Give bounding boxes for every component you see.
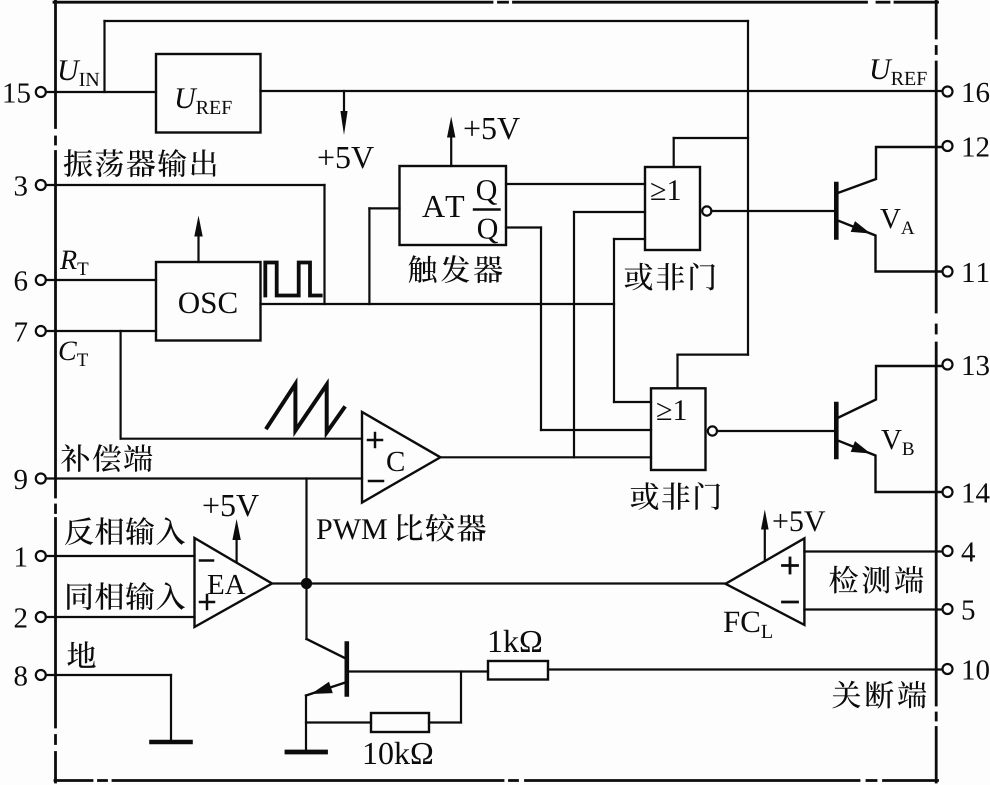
wire pin4 to FC_L + <box>804 550 942 552</box>
value label 1kOhm <box>490 631 501 652</box>
wire NOR1 supply connector <box>673 138 675 167</box>
+5V label <box>319 150 334 165</box>
net shutdown label <box>832 681 860 709</box>
+5V arrow above AT <box>450 135 452 167</box>
pin 4 <box>943 546 953 556</box>
wire osc riser to NOR gates x=614 <box>613 239 615 402</box>
+5V label above AT <box>465 121 480 136</box>
NOR1 caption <box>625 263 653 291</box>
wire OSC output to risers <box>261 303 615 305</box>
error amplifier EA <box>195 538 273 627</box>
pin 12 <box>943 141 953 151</box>
wire EA output bus to FC_L <box>272 582 726 584</box>
net oscillator-output label <box>64 149 93 177</box>
+5V tap arrow (from U_REF line) <box>343 91 345 114</box>
wire pin5 to FC_L - <box>804 608 942 610</box>
pin 15 <box>36 87 46 97</box>
net inverting-input label <box>65 517 93 545</box>
wire pin6 R_T to OSC <box>46 279 156 281</box>
flip-flop caption <box>409 255 437 283</box>
+5V label above FC_L <box>773 514 787 528</box>
+5V arrow above OSC <box>197 234 199 263</box>
transistor V_B <box>834 404 839 457</box>
+5V label above EA <box>204 498 219 513</box>
net compensation label <box>61 444 89 472</box>
wire NOR1 output to V_A base <box>711 210 835 212</box>
node U_IN label <box>60 60 81 80</box>
ground (feedback transistor) <box>287 750 326 755</box>
wire pin15 to U_REF input <box>46 91 156 93</box>
sawtooth symbol <box>267 384 344 433</box>
wire top supply bus <box>105 20 749 22</box>
pin 3 <box>36 180 46 190</box>
wire AT Q output to NOR1 <box>506 183 645 185</box>
transistor (feedback, unlabeled) <box>307 639 347 659</box>
value label 10kOhm <box>365 743 376 764</box>
pin 1 <box>36 551 46 561</box>
wire osc riser to AT input <box>368 208 370 304</box>
wire Qbar riser x=541 to NOR2 <box>540 228 542 431</box>
IC boundary (chain line) <box>54 1 492 4</box>
wire pin2 to EA noninverting input <box>46 616 195 618</box>
voltage reference U_REF <box>156 54 261 133</box>
node C_T label <box>60 341 77 360</box>
comparator FC_L <box>726 538 805 625</box>
net ground label <box>67 641 95 668</box>
ground (pin 8) <box>152 740 191 745</box>
pin 2 <box>36 612 46 622</box>
resistor 1kOhm <box>488 661 548 680</box>
wire feedback riser x=306 <box>305 479 307 640</box>
wire supply bus drop to NOR gates <box>747 21 749 355</box>
transistor V_A <box>834 184 839 238</box>
pin 7 <box>36 326 46 336</box>
wire U_IN riser to top bus <box>103 21 105 92</box>
wire emitter to ground <box>305 696 307 752</box>
pin 10 <box>943 664 953 674</box>
wire U_REF output to pin 16 <box>261 90 943 92</box>
PWM comparator caption <box>317 519 332 539</box>
NOR2 output bubble <box>708 426 717 435</box>
square wave symbol <box>265 263 320 296</box>
net noninverting-input label <box>67 583 92 610</box>
junction dot EA output <box>301 578 312 589</box>
wire AT Qbar output <box>506 226 541 228</box>
pin 6 <box>36 275 46 285</box>
pin 8 <box>36 670 46 680</box>
flip-flop AT <box>400 166 507 245</box>
pin 11 <box>943 267 953 277</box>
wire pin9 compensation to comparator - <box>46 477 362 479</box>
wire pin7 C_T to OSC <box>46 330 156 332</box>
wire NOR2 output to V_B base <box>717 430 835 432</box>
wire PWM riser to NOR1 input x=574 <box>573 212 575 457</box>
wire 1k to pin10 shutdown <box>548 668 942 670</box>
wire C_T branch to comparator + <box>119 331 121 439</box>
oscillator OSC <box>156 262 261 341</box>
pin 5 <box>943 604 953 614</box>
wire pin3 oscillator output <box>46 184 325 186</box>
wire comparator C output to NOR2 <box>440 456 651 458</box>
NOR gate 1 <box>645 167 700 250</box>
wire base to 10k riser x=461 <box>460 672 462 723</box>
pin 14 <box>943 487 953 497</box>
+5V arrow above FC_L <box>764 527 766 562</box>
resistor 10kOhm <box>371 713 429 732</box>
NOR2 caption <box>631 482 659 510</box>
node U_REF label (right) <box>872 59 893 79</box>
NOR1 output bubble <box>702 206 711 215</box>
net detect label <box>829 566 858 594</box>
wire osc output riser x=324.5 <box>323 185 325 304</box>
pin 16 <box>943 87 953 97</box>
wire NOR2 supply connector <box>678 354 749 356</box>
wire pin1 to EA inverting input <box>46 555 195 557</box>
node R_T label <box>60 251 77 269</box>
pin 13 <box>943 360 953 370</box>
+5V arrow above EA <box>236 537 238 562</box>
wire base node <box>347 670 488 672</box>
pin 9 <box>36 474 46 484</box>
NOR gate 2 <box>651 388 706 470</box>
wire pin8 to ground <box>46 674 171 676</box>
comparator C (PWM) <box>362 412 440 503</box>
